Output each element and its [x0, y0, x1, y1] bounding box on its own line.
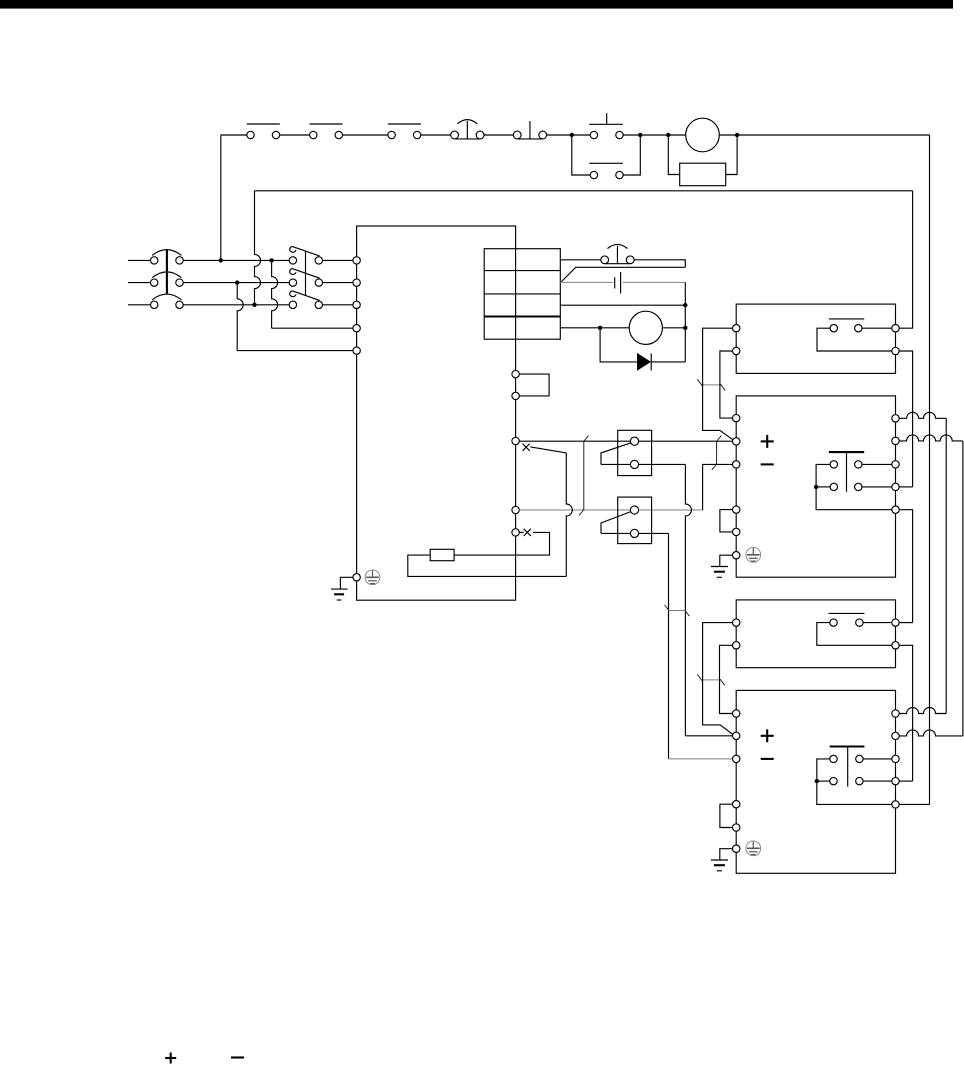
wire chain left riser [220, 135, 222, 260]
U2 r5 stub [899, 803, 929, 805]
input lead L3 [128, 304, 150, 306]
U1 button wires right [862, 464, 892, 487]
U2 right terminal r2 [892, 732, 899, 739]
U1 button node [814, 485, 818, 489]
changeover blade (charge switch) [562, 267, 686, 281]
U1 left terminal 4 [733, 506, 740, 513]
cable marker upper unit [697, 379, 725, 390]
wire row2 bottom run [237, 350, 353, 352]
terminal PE on control box [353, 574, 360, 581]
U1 left terminal 5 [733, 528, 740, 535]
wire X1 drop [566, 453, 572, 577]
U1 button branch [816, 486, 830, 488]
U2 button wires right [863, 759, 892, 781]
input lead L1 [128, 259, 150, 261]
wire S3-PB1 [421, 134, 451, 136]
servo amp A2 outline [736, 600, 895, 668]
relay K2 blade [601, 512, 631, 534]
push button PB2 [513, 121, 546, 139]
U1 minus wire [703, 464, 733, 510]
diode branch right [651, 361, 685, 363]
capacitor C1 return (thin) [623, 281, 686, 283]
wire PB3 return [634, 260, 685, 268]
terminal T4 on control box [353, 325, 360, 332]
U1 button wiring left [816, 464, 892, 509]
relay contact block K1 [618, 430, 652, 475]
U2 left terminal 1 [733, 710, 740, 717]
wire A1-L1 to plus [703, 328, 734, 440]
wire S1-S2 [280, 134, 310, 136]
terminal X2 [512, 506, 519, 513]
wire row2 CB1-MC1 [183, 282, 289, 284]
wire resistor loop bottom [408, 555, 567, 576]
wire parallel bottom right [623, 135, 640, 175]
capacitor C1 [615, 272, 621, 293]
node J4 [735, 133, 739, 137]
transformer divider 1 [484, 270, 560, 272]
U2 r2 wire with hops [899, 730, 963, 736]
wire K2 to lower minus [668, 533, 670, 759]
wire MC1 to unit [323, 304, 353, 306]
U2 internal release button [830, 747, 865, 787]
U2 earth wire [720, 849, 733, 860]
wire K1 to lower plus [685, 464, 691, 735]
transformer divider 2 [484, 293, 560, 295]
wire J3-lamp [668, 134, 686, 136]
U2 r1 wire with hops [899, 708, 946, 714]
node J2 [638, 133, 642, 137]
pilot lamp/coil M1 [686, 118, 720, 152]
U2 button node [815, 779, 819, 783]
U2 left terminal 5 [733, 824, 740, 831]
cable marker lower unit [697, 674, 725, 685]
page header bar [0, 0, 953, 9]
A1 terminal L1 [733, 325, 740, 332]
earth symbol (U2) [711, 860, 728, 871]
resistor R1 [680, 163, 726, 186]
A2 internal NC contact [829, 613, 865, 626]
breaker CB1 pole 2 [151, 272, 184, 286]
earth symbol (U1) [711, 567, 728, 578]
U1 link T4-T5 [720, 510, 733, 532]
DC plus line [519, 440, 733, 442]
node cap bus row3 [683, 303, 687, 307]
U2 left terminal PE [733, 845, 740, 852]
contactor MC1 pole 3 [289, 291, 322, 309]
terminal TB1-a [512, 370, 519, 377]
relay K1 blade [601, 443, 631, 465]
U1 plus label [761, 435, 774, 448]
wire trafo row4 out [560, 327, 629, 329]
wire PB1-PB2 [484, 134, 514, 136]
U2 left terminal + [733, 732, 740, 739]
transformer block outline [484, 249, 560, 340]
node cap bus row4 [683, 326, 687, 330]
capacitor C1 feed (thin) [560, 281, 612, 283]
relay K2 contacts [630, 506, 638, 538]
U1 r2 wire with hops [899, 435, 963, 441]
X1 cross mark [523, 444, 530, 451]
protective earth icon (box) [365, 570, 380, 585]
U1 minus label [761, 463, 774, 465]
U2 button branch [817, 780, 830, 782]
wire X3 stub [519, 531, 523, 533]
U1 r4 stub [899, 486, 912, 488]
wire A2-L1 to plus [703, 623, 734, 735]
contactor MC1 tie bar [305, 252, 307, 296]
node row1 a [219, 258, 223, 262]
NC contact S2 [310, 124, 343, 139]
U1 left terminal 1 [733, 414, 740, 421]
wire VD run [962, 441, 964, 736]
wire chain drop to lower unit [929, 135, 931, 804]
link TB1 [519, 374, 549, 396]
NC contact S1 [247, 124, 280, 139]
U2 right terminal r5 [892, 801, 899, 808]
NC contact S5 (bottom branch) [589, 163, 623, 178]
relay K2 pole wire [601, 532, 669, 534]
wire A2-R2 drop [899, 645, 912, 781]
wire interlock line [255, 190, 913, 192]
U2 right terminal r4 [892, 777, 899, 784]
resistor R1 branch left [668, 135, 679, 175]
U1 right terminal r3 [892, 461, 899, 468]
wire A2-L2 to T1 [720, 645, 733, 713]
diode D1 [637, 353, 651, 371]
coupling link K1-K2 [579, 436, 589, 516]
node row3 a [252, 303, 256, 307]
contactor MC1 pole 2 [289, 269, 322, 287]
node row1 b [269, 258, 273, 262]
U1 left terminal PE [733, 552, 740, 559]
wire PB2-node [546, 134, 572, 136]
U1 right terminal r1 [892, 415, 899, 422]
wire X1 diagonal [531, 447, 567, 453]
terminal TB1-b [512, 392, 519, 399]
X3 cross mark [524, 529, 531, 536]
wire A1-R2 drop [899, 351, 912, 487]
U1 left terminal + [733, 438, 740, 445]
A1 contact wire right [862, 327, 892, 329]
legend minus [231, 1056, 244, 1058]
diode branch left [600, 328, 637, 362]
terminal T1 on control box [353, 257, 360, 264]
U2 right terminal r3 [892, 755, 899, 762]
control box outline [357, 226, 516, 600]
wire chain to right drop [737, 134, 929, 136]
NC contact S3 [388, 124, 421, 139]
earth wire (box) [340, 577, 353, 589]
U1 left terminal - [733, 461, 740, 468]
U1 r1 wire with hops [899, 412, 946, 418]
wire parallel top right [623, 134, 640, 136]
cable marker mid [665, 605, 690, 616]
A1 terminal R2 [892, 347, 899, 354]
wire lamp-J4 [719, 134, 737, 136]
terminal X1 [512, 437, 519, 444]
node J3 [666, 133, 670, 137]
A2 terminal L2 [733, 642, 740, 649]
U2 right terminal r1 [892, 710, 899, 717]
relay contact block K2 [618, 497, 652, 543]
protective earth icon (U2) [746, 841, 761, 856]
U2 minus label [761, 758, 774, 760]
wire lower minus feed (thin) [669, 758, 733, 760]
legend plus [165, 1053, 176, 1064]
U1 right terminal r2 [892, 437, 899, 444]
wire resistor loop right [454, 532, 549, 555]
terminal T2 on control box [353, 279, 360, 286]
wire drop row1 to T4 [272, 260, 278, 328]
A2 terminal R2 [892, 642, 899, 649]
wire A2-R1 up [899, 622, 912, 624]
A2 contact wire right [863, 622, 892, 624]
breaker CB1 pole 3 [151, 294, 184, 308]
wire drop row2 to T5 [237, 283, 243, 351]
input lead L2 [128, 282, 150, 284]
U1 internal release button [829, 452, 864, 492]
wire parallel top left [572, 134, 590, 136]
resistor R1 branch right [726, 135, 737, 175]
wire MC1 to unit [323, 259, 353, 261]
U2 link T4-T5 [720, 804, 733, 827]
wire row1 CB1-MC1 [183, 259, 289, 261]
U2 left terminal 4 [733, 801, 740, 808]
node diode branch [598, 326, 602, 330]
terminal T5 on control box [353, 347, 360, 354]
A1 contact wire left [817, 328, 892, 351]
A1 terminal R1 [892, 325, 899, 332]
A2 terminal L1 [733, 619, 740, 626]
contactor MC1 pole 1 [289, 246, 322, 264]
transformer divider 3 (bold) [484, 315, 560, 317]
wire row1 bottom run [272, 327, 353, 329]
breaker CB1 pole 1 [151, 250, 184, 264]
U2 left terminal - [733, 755, 740, 762]
U1 earth wire [720, 555, 733, 566]
wire A1-R1 to interlock [899, 191, 912, 328]
A1 internal NC contact [829, 319, 864, 332]
wire VC run [945, 418, 947, 713]
emergency stop button PB1 [451, 120, 484, 139]
wire parallel bottom branch [572, 135, 590, 175]
U1 right terminal r5 [892, 506, 899, 513]
charge push button PB3 [601, 244, 634, 263]
NO push contact S4 (top branch) [589, 113, 623, 139]
A1 terminal L2 [733, 347, 740, 354]
protective earth icon (U1) [746, 547, 761, 562]
relay K1 contacts [630, 437, 638, 468]
drive unit U1 outline [736, 396, 895, 577]
U2 plus label [761, 729, 774, 742]
U2 button wiring left [817, 759, 892, 805]
wire M2 to bus [662, 327, 685, 329]
wire S2-S3 [342, 134, 388, 136]
DC mid line (thin) [519, 509, 702, 511]
wire A1-L2 to T1 [720, 351, 733, 418]
A2 contact wire left [817, 623, 892, 646]
wire row3 CB1-MC1 [183, 304, 289, 306]
node row2 a [235, 280, 239, 284]
resistor R2 [430, 549, 454, 560]
coupling link at plus terminal [712, 436, 722, 470]
A2 terminal R1 [892, 619, 899, 626]
wire cap bus drop [684, 282, 686, 362]
breaker CB1 tie bar [166, 249, 168, 293]
wire trafo row1 out [560, 259, 601, 261]
wire chain start [221, 134, 247, 136]
terminal T3 on control box [353, 301, 360, 308]
U2 r4 stub [899, 780, 912, 782]
earth symbol (box) [331, 589, 348, 600]
relay K1 pole wire [601, 463, 685, 465]
drive unit U2 outline [736, 690, 895, 873]
wire J2-J3 [640, 134, 668, 136]
node J1 [570, 133, 574, 137]
wire drop interlock to row3 [255, 191, 261, 305]
U1 right terminal r4 [892, 483, 899, 490]
wire trafo row3 out [560, 304, 685, 306]
wire MC1 to unit [323, 282, 353, 284]
motor M2 [629, 311, 662, 344]
servo amp A1 outline [736, 304, 895, 373]
U1 r5 wire drop [899, 510, 912, 623]
wire lower plus feed [685, 735, 732, 737]
terminal X3 [512, 529, 519, 536]
